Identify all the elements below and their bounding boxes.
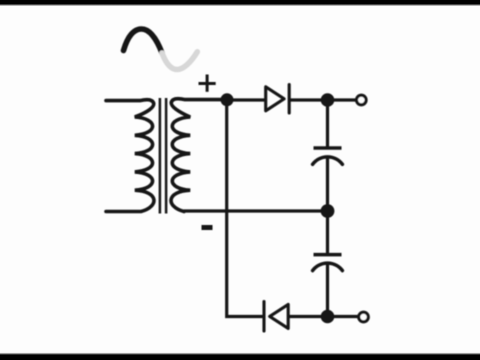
node B junction dot (321, 93, 335, 107)
transformer secondary winding (171, 99, 222, 212)
wire: node B to positive output terminal (328, 98, 356, 101)
wire: transformer secondary bottom lead to node C (184, 209, 322, 212)
plus polarity label (199, 75, 216, 92)
diode D1 (266, 85, 290, 114)
minus polarity label (202, 225, 213, 230)
node C junction dot (321, 204, 335, 218)
wire: left rail from node A down to bottom branch corner (227, 100, 263, 317)
wire: node C down to capacitor C2 (326, 211, 329, 253)
diode D2 (264, 302, 288, 332)
capacitor C1 (313, 148, 343, 164)
AC sine waveform negative half-cycle (gray) (162, 52, 197, 70)
AC sine waveform positive half-cycle (124, 29, 163, 53)
wire: D1 cathode to node B (290, 98, 322, 101)
wire: capacitor C2 to node D (326, 265, 329, 317)
wire: node B down to capacitor C1 (326, 100, 329, 146)
transformer primary winding (106, 100, 154, 212)
wire: node D to negative output terminal (328, 315, 358, 318)
wire: D2 anode to node D (289, 315, 322, 318)
transformer core (160, 98, 166, 214)
node D junction dot (321, 310, 335, 324)
capacitor C2 (313, 255, 343, 271)
negative output terminal (359, 312, 369, 322)
wire: capacitor C1 to node C (326, 159, 329, 212)
wire: node A to diode D1 anode (227, 98, 265, 101)
node A junction dot (221, 93, 234, 106)
positive output terminal (357, 95, 367, 105)
